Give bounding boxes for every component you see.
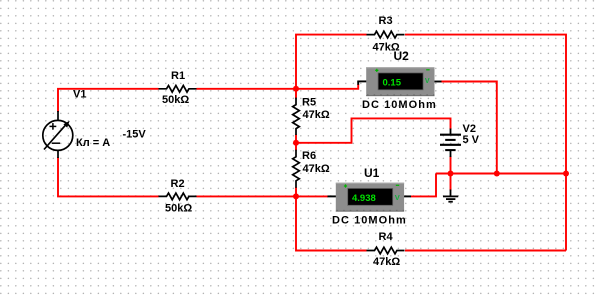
svg-text:R2: R2 (171, 178, 185, 190)
junction: R5/R6/battery branch node (293, 140, 299, 146)
wire: R2-row junction down to R4 row and across to R4 left (296, 196, 367, 250)
wire: ground net horizontal (436, 173, 566, 175)
svg-text:V: V (395, 193, 400, 202)
junction: battery/ground node (448, 171, 454, 177)
svg-text:47kΩ: 47kΩ (373, 256, 400, 268)
wire: V1 top lead up and across to R1 left (58, 89, 159, 112)
wire: U2 right down to ground net (441, 82, 497, 174)
source V1 (variable DC source, key A) (43, 111, 73, 158)
svg-text:R3: R3 (379, 15, 393, 27)
svg-text:R1: R1 (171, 70, 185, 82)
wire: battery V2 negative down to ground node (450, 156, 452, 191)
multimeter U2 (357, 67, 441, 96)
wire: V1 bottom lead down and across R2 row to U1 left (58, 157, 159, 196)
wire: R6 bottom to junction on R2 row (295, 187, 297, 198)
junction: R2/R6/R4 node (293, 193, 299, 199)
svg-text:50kΩ: 50kΩ (162, 94, 189, 106)
wire: R4 right to right vertical (405, 250, 566, 252)
svg-text:R6: R6 (302, 150, 316, 162)
svg-text:Кл = A: Кл = A (76, 137, 110, 149)
wire: R5 bottom through junction to R6 top (295, 135, 297, 151)
multimeter U1 (328, 183, 412, 212)
wire: R1 right to U2 left jog (197, 84, 359, 89)
wire: node junction R1/R3/R5 up to R3 row and across to R3 left (296, 35, 367, 90)
wire: R5/R6 junction across and up to battery V2 positive (296, 118, 451, 142)
resistor R5 (293, 98, 300, 135)
svg-text:R4: R4 (379, 231, 394, 243)
wire: junction to R5 top (295, 88, 297, 99)
svg-text:R5: R5 (302, 96, 316, 108)
svg-text:U1: U1 (364, 166, 380, 180)
resistor R3 (367, 31, 405, 38)
svg-text:V: V (425, 78, 430, 85)
svg-text:DC 10MOhm: DC 10MOhm (332, 215, 407, 227)
battery V2 (440, 129, 461, 158)
wire: U1 right to ground net (411, 174, 437, 197)
junction: right vertical on ground net (563, 171, 569, 177)
resistor R4 (367, 247, 405, 254)
wire: R2 right to U1 left stub (197, 195, 329, 197)
svg-text:U2: U2 (394, 49, 410, 63)
svg-text:5 V: 5 V (463, 134, 480, 146)
svg-text:47kΩ: 47kΩ (303, 163, 330, 175)
wire: R3 right across top and down right vertical to R4 right (405, 35, 566, 251)
svg-text:0.15: 0.15 (383, 77, 402, 88)
resistor R2 (159, 193, 197, 200)
ground symbol (443, 190, 458, 202)
svg-text:4.938: 4.938 (352, 193, 376, 204)
resistor R6 (293, 150, 300, 188)
resistor R1 (159, 86, 197, 93)
svg-text:-15V: -15V (123, 129, 147, 141)
svg-text:50kΩ: 50kΩ (165, 203, 192, 215)
junction: U2 branch on ground net (494, 171, 500, 177)
svg-text:V1: V1 (73, 89, 86, 101)
svg-text:47kΩ: 47kΩ (303, 109, 330, 121)
junction: R1/R3/R5 node (293, 86, 299, 92)
svg-text:DC 10MOhm: DC 10MOhm (362, 99, 437, 111)
